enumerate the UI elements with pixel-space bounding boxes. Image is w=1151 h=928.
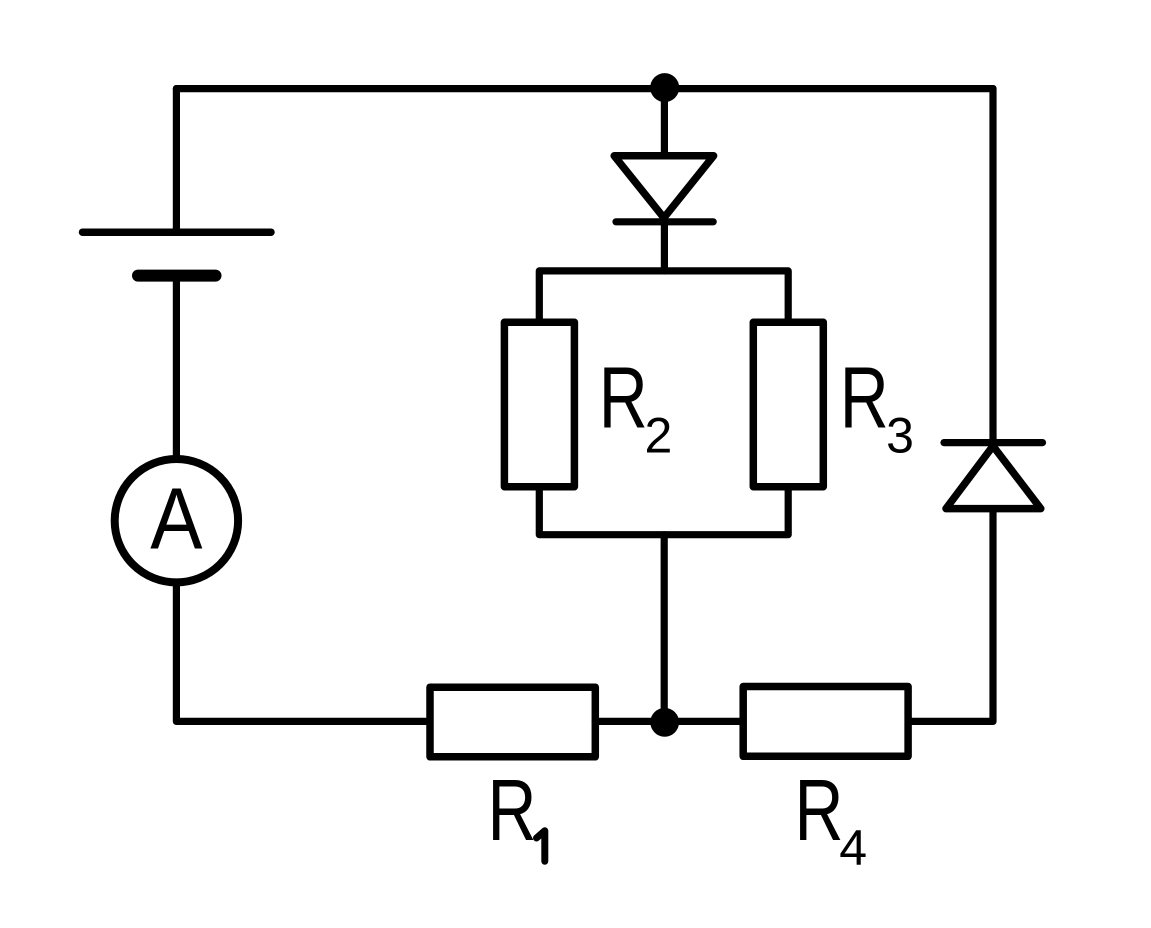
label R2 [599,348,673,463]
node: bottom junction dot [650,708,679,737]
diode D2 (right, pointing up) triangle [946,446,1041,509]
svg-text:3: 3 [886,408,914,464]
wire R1 to R4 through bottom junction [595,718,743,725]
ammeter A (circle) [115,459,238,582]
svg-text:2: 2 [645,408,673,464]
resistor R4 (body) [743,687,908,757]
diode D1 (top, pointing down) triangle [614,156,713,218]
wire parallel block top rail with branch drops [539,271,788,325]
battery cell: long positive plate [83,228,272,236]
resistor R1 (body) [430,687,595,757]
svg-text:R: R [795,761,844,859]
node: top junction dot [650,73,679,102]
svg-text:4: 4 [839,820,867,876]
svg-text:R: R [840,348,889,446]
svg-text:R: R [599,348,648,446]
wire R4 right and up to diode D2 [908,512,993,721]
wire center tap from parallel block to bottom junction [661,535,668,722]
wire left vertical from top rail down to battery [173,89,180,231]
wire parallel block bottom rail with branch risers [539,489,788,535]
svg-text:R: R [488,761,537,859]
resistor R3 (body) [753,322,823,486]
wire ammeter down and right to R1 [176,582,428,721]
battery cell: short thick negative plate [138,270,216,282]
label R3 [840,348,914,463]
diode D1 cathode bar [616,218,713,225]
svg-text:A: A [150,469,203,567]
ammeter letter A [150,469,203,567]
wire right vertical from top rail down to diode D2 [989,89,996,446]
label R4 [795,761,868,876]
diode D2 cathode bar [944,439,1043,446]
wire top rail from battery top to right branch [176,85,993,92]
resistor R2 (body) [504,322,574,486]
wire from top junction down through diode D1 to parallel block [661,88,668,271]
label R1 [488,761,545,862]
wire battery to ammeter [173,276,180,458]
